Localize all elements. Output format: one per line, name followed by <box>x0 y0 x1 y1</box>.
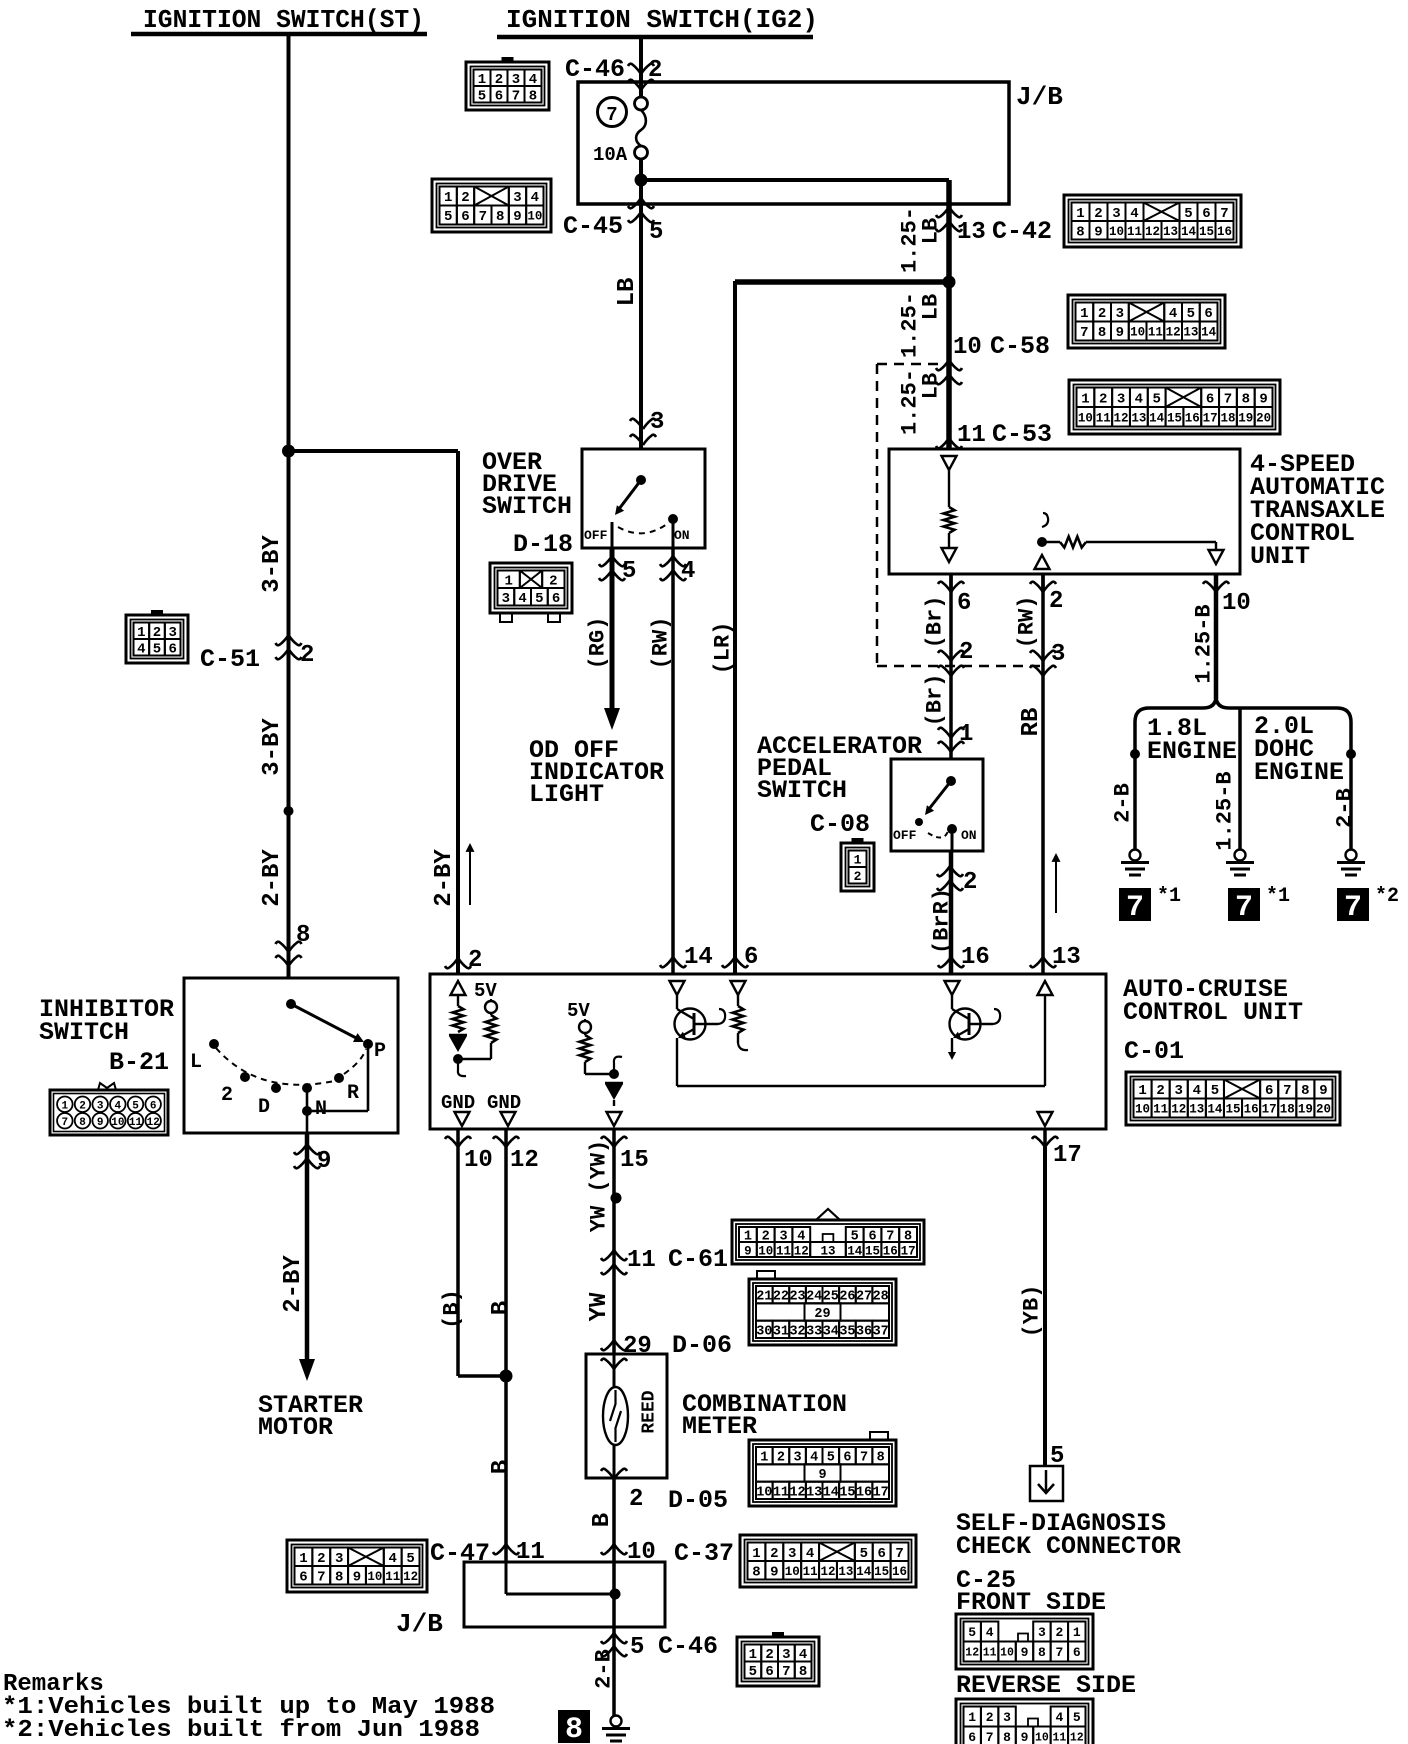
svg-text:ON: ON <box>674 528 690 543</box>
svg-text:10: 10 <box>953 334 982 361</box>
svg-text:3: 3 <box>1112 206 1120 222</box>
svg-text:8: 8 <box>752 1564 760 1580</box>
svg-text:2: 2 <box>963 869 977 896</box>
svg-text:LB: LB <box>614 278 641 307</box>
svg-text:10: 10 <box>1109 225 1124 239</box>
svg-text:20: 20 <box>1256 411 1271 425</box>
svg-text:12: 12 <box>1145 225 1160 239</box>
svg-text:12: 12 <box>1171 1103 1186 1117</box>
svg-text:YW: YW <box>586 1292 613 1321</box>
svg-text:8: 8 <box>565 1713 583 1744</box>
svg-text:11: 11 <box>627 1247 656 1274</box>
svg-text:REVERSE SIDE: REVERSE SIDE <box>956 1671 1136 1700</box>
svg-text:(Br): (Br) <box>923 674 948 727</box>
svg-text:3: 3 <box>1117 391 1125 407</box>
svg-text:10: 10 <box>1035 1732 1049 1744</box>
svg-text:7: 7 <box>1344 891 1362 925</box>
svg-text:10: 10 <box>367 1570 382 1584</box>
svg-text:10: 10 <box>111 1117 124 1129</box>
svg-text:17: 17 <box>1053 1142 1082 1169</box>
svg-text:14: 14 <box>1181 225 1197 239</box>
svg-text:15: 15 <box>874 1565 889 1579</box>
svg-text:18: 18 <box>1220 411 1235 425</box>
svg-text:7: 7 <box>1080 325 1088 341</box>
svg-text:5: 5 <box>749 1664 757 1680</box>
svg-text:10: 10 <box>1222 590 1251 617</box>
svg-text:14: 14 <box>856 1565 872 1579</box>
svg-text:15: 15 <box>1225 1103 1240 1117</box>
svg-text:2-B: 2-B <box>592 1649 617 1689</box>
svg-text:2: 2 <box>1049 588 1063 615</box>
svg-text:8: 8 <box>1301 1083 1309 1099</box>
svg-text:6: 6 <box>765 1664 773 1680</box>
svg-text:B: B <box>589 1513 616 1527</box>
svg-text:CHECK CONNECTOR: CHECK CONNECTOR <box>956 1532 1181 1561</box>
svg-text:17: 17 <box>901 1245 916 1259</box>
svg-text:2: 2 <box>549 573 557 589</box>
svg-text:11: 11 <box>1148 326 1163 340</box>
svg-text:5: 5 <box>535 591 543 607</box>
svg-text:J/B: J/B <box>1016 82 1063 112</box>
svg-text:D-18: D-18 <box>513 530 573 559</box>
svg-text:8: 8 <box>1038 1645 1046 1660</box>
svg-text:LIGHT: LIGHT <box>529 780 604 809</box>
svg-text:P: P <box>374 1040 386 1063</box>
svg-text:1: 1 <box>752 1546 760 1562</box>
svg-text:2: 2 <box>300 642 314 669</box>
svg-text:11: 11 <box>129 1117 143 1129</box>
svg-text:2-BY: 2-BY <box>259 849 286 907</box>
svg-text:10: 10 <box>785 1565 800 1579</box>
svg-text:C-01: C-01 <box>1124 1037 1184 1066</box>
svg-text:LB: LB <box>919 218 944 244</box>
svg-text:7: 7 <box>512 88 520 104</box>
svg-text:13: 13 <box>1183 326 1198 340</box>
svg-text:12: 12 <box>965 1647 979 1660</box>
svg-text:*1: *1 <box>1157 885 1181 908</box>
svg-text:13: 13 <box>1189 1103 1204 1117</box>
svg-text:5: 5 <box>860 1546 868 1562</box>
svg-text:13: 13 <box>838 1565 853 1579</box>
svg-text:6: 6 <box>299 1569 307 1585</box>
svg-text:11: 11 <box>983 1647 997 1660</box>
svg-text:UNIT: UNIT <box>1250 542 1310 571</box>
svg-text:5: 5 <box>132 1100 139 1112</box>
svg-text:3: 3 <box>513 190 521 206</box>
svg-text:29: 29 <box>623 1333 652 1360</box>
svg-text:11: 11 <box>385 1570 400 1584</box>
svg-text:9: 9 <box>1259 391 1267 407</box>
svg-text:15: 15 <box>1199 225 1214 239</box>
svg-text:16: 16 <box>961 944 990 971</box>
svg-text:3-BY: 3-BY <box>259 535 286 593</box>
svg-text:4: 4 <box>1130 206 1138 222</box>
svg-text:2-BY: 2-BY <box>431 849 458 907</box>
svg-text:9: 9 <box>744 1245 752 1259</box>
svg-text:9: 9 <box>770 1564 778 1580</box>
svg-text:C-47: C-47 <box>430 1539 490 1568</box>
svg-text:9: 9 <box>97 1117 104 1129</box>
svg-text:*2: *2 <box>1375 885 1399 908</box>
svg-text:C-42: C-42 <box>992 217 1052 246</box>
svg-text:8: 8 <box>496 209 504 225</box>
svg-text:20: 20 <box>1316 1103 1331 1117</box>
svg-text:5: 5 <box>630 1634 644 1661</box>
svg-text:8: 8 <box>1242 391 1250 407</box>
svg-text:10: 10 <box>1135 1103 1150 1117</box>
svg-text:C-46: C-46 <box>658 1632 718 1661</box>
svg-text:12: 12 <box>1070 1732 1084 1744</box>
svg-text:5: 5 <box>649 219 663 246</box>
svg-text:6: 6 <box>495 88 503 104</box>
svg-text:R: R <box>347 1082 359 1105</box>
svg-text:C-46: C-46 <box>565 55 625 84</box>
svg-text:5: 5 <box>478 88 486 104</box>
svg-text:(RW): (RW) <box>649 617 674 670</box>
svg-text:15: 15 <box>1167 411 1182 425</box>
svg-text:31: 31 <box>773 1324 789 1339</box>
svg-text:2: 2 <box>461 190 469 206</box>
svg-text:19: 19 <box>1238 411 1253 425</box>
svg-text:2: 2 <box>986 1710 994 1725</box>
svg-text:SWITCH: SWITCH <box>482 492 572 521</box>
svg-text:ON: ON <box>961 828 977 843</box>
svg-text:4: 4 <box>389 1551 397 1567</box>
svg-text:7: 7 <box>62 1117 69 1129</box>
svg-text:11: 11 <box>1153 1103 1168 1117</box>
svg-text:1: 1 <box>854 852 862 867</box>
svg-text:C-53: C-53 <box>992 420 1052 449</box>
svg-text:1: 1 <box>959 721 973 748</box>
svg-text:6: 6 <box>1204 306 1212 322</box>
svg-text:9: 9 <box>1319 1083 1327 1099</box>
svg-text:5: 5 <box>1187 306 1195 322</box>
svg-text:3: 3 <box>788 1546 796 1562</box>
svg-text:2: 2 <box>648 57 662 84</box>
svg-text:6: 6 <box>968 1730 976 1744</box>
svg-text:8: 8 <box>1076 224 1084 240</box>
svg-text:7: 7 <box>317 1569 325 1585</box>
svg-text:6: 6 <box>461 209 469 225</box>
svg-text:5: 5 <box>1073 1710 1081 1725</box>
svg-text:6: 6 <box>1265 1083 1273 1099</box>
svg-text:14: 14 <box>823 1485 839 1500</box>
svg-text:9: 9 <box>1116 325 1124 341</box>
svg-text:1: 1 <box>968 1710 976 1725</box>
svg-text:6: 6 <box>1206 391 1214 407</box>
svg-text:14: 14 <box>847 1245 863 1259</box>
svg-text:10: 10 <box>527 210 542 224</box>
svg-text:2: 2 <box>770 1546 778 1562</box>
svg-text:14: 14 <box>1201 326 1217 340</box>
svg-text:12: 12 <box>147 1117 160 1129</box>
svg-text:8: 8 <box>529 88 537 104</box>
svg-text:4: 4 <box>531 190 539 206</box>
svg-text:LB: LB <box>919 294 944 320</box>
svg-text:15: 15 <box>839 1485 855 1500</box>
svg-text:MOTOR: MOTOR <box>258 1413 333 1442</box>
svg-text:16: 16 <box>892 1565 907 1579</box>
svg-text:5: 5 <box>1152 391 1160 407</box>
svg-text:1: 1 <box>1073 1625 1081 1640</box>
svg-text:(Br): (Br) <box>923 596 948 649</box>
svg-text:2-BY: 2-BY <box>280 1255 307 1313</box>
svg-text:16: 16 <box>1244 1103 1259 1117</box>
svg-text:GND: GND <box>487 1092 521 1114</box>
svg-text:10: 10 <box>464 1147 493 1174</box>
svg-text:3: 3 <box>335 1551 343 1567</box>
svg-text:10: 10 <box>1130 326 1145 340</box>
svg-text:36: 36 <box>856 1324 872 1339</box>
svg-text:7: 7 <box>1224 391 1232 407</box>
svg-text:LB: LB <box>919 373 944 399</box>
svg-text:GND: GND <box>441 1092 475 1114</box>
svg-text:RB: RB <box>1018 708 1045 737</box>
svg-text:9: 9 <box>1021 1645 1029 1660</box>
svg-text:35: 35 <box>839 1324 855 1339</box>
svg-text:16: 16 <box>1185 411 1200 425</box>
svg-text:11: 11 <box>1096 411 1111 425</box>
svg-text:11: 11 <box>773 1485 789 1500</box>
svg-text:12: 12 <box>1166 326 1181 340</box>
svg-text:8: 8 <box>1003 1730 1011 1744</box>
svg-text:8: 8 <box>1098 325 1106 341</box>
svg-text:10: 10 <box>758 1245 773 1259</box>
svg-text:5: 5 <box>153 641 161 657</box>
svg-text:2: 2 <box>221 1084 233 1107</box>
svg-text:9: 9 <box>1094 224 1102 240</box>
svg-text:2: 2 <box>468 947 482 974</box>
svg-text:5: 5 <box>1211 1083 1219 1099</box>
svg-text:2: 2 <box>79 1100 86 1112</box>
svg-text:6: 6 <box>957 590 971 617</box>
svg-text:11: 11 <box>1052 1732 1066 1744</box>
svg-text:L: L <box>190 1051 202 1074</box>
svg-text:(YB): (YB) <box>1020 1285 1045 1338</box>
svg-text:13: 13 <box>1052 944 1081 971</box>
svg-text:11: 11 <box>803 1565 818 1579</box>
svg-text:9: 9 <box>353 1569 361 1585</box>
svg-text:8: 8 <box>335 1569 343 1585</box>
svg-text:1: 1 <box>1080 306 1088 322</box>
svg-text:6: 6 <box>877 1546 885 1562</box>
svg-text:D: D <box>258 1096 270 1119</box>
svg-text:9: 9 <box>1021 1730 1029 1744</box>
svg-text:3: 3 <box>502 591 510 607</box>
svg-text:B-21: B-21 <box>109 1048 169 1077</box>
svg-text:1: 1 <box>504 573 512 589</box>
svg-text:3: 3 <box>97 1100 104 1112</box>
svg-text:1: 1 <box>1081 391 1089 407</box>
svg-text:16: 16 <box>856 1485 872 1500</box>
svg-text:IGNITION SWITCH(ST): IGNITION SWITCH(ST) <box>143 5 424 35</box>
svg-text:10: 10 <box>1000 1647 1014 1660</box>
svg-text:B: B <box>488 1301 515 1315</box>
svg-text:13: 13 <box>806 1485 822 1500</box>
svg-text:12: 12 <box>510 1147 539 1174</box>
svg-text:17: 17 <box>873 1485 889 1500</box>
svg-text:IGNITION SWITCH(IG2): IGNITION SWITCH(IG2) <box>506 5 818 35</box>
svg-text:2-B: 2-B <box>1333 788 1358 828</box>
svg-text:5: 5 <box>968 1625 976 1640</box>
svg-text:4: 4 <box>681 558 695 585</box>
svg-text:9: 9 <box>513 209 521 225</box>
svg-text:(B): (B) <box>440 1289 465 1329</box>
svg-text:5: 5 <box>622 558 636 585</box>
svg-text:3: 3 <box>1175 1083 1183 1099</box>
svg-text:4: 4 <box>1135 391 1143 407</box>
svg-text:11: 11 <box>776 1245 791 1259</box>
svg-text:REED: REED <box>639 1390 659 1433</box>
svg-text:3: 3 <box>1038 1625 1046 1640</box>
svg-text:2: 2 <box>317 1551 325 1567</box>
svg-text:*2:Vehicles built from Jun 198: *2:Vehicles built from Jun 1988 <box>2 1717 480 1744</box>
svg-text:C-58: C-58 <box>990 332 1050 361</box>
svg-text:1: 1 <box>1138 1083 1146 1099</box>
svg-text:C-45: C-45 <box>563 212 623 241</box>
svg-text:1.25-B: 1.25-B <box>1192 604 1217 683</box>
svg-text:18: 18 <box>1280 1103 1295 1117</box>
svg-text:8: 8 <box>79 1117 86 1129</box>
svg-text:13: 13 <box>820 1245 835 1259</box>
svg-text:16: 16 <box>1217 225 1232 239</box>
svg-text:3: 3 <box>650 409 664 436</box>
svg-text:4: 4 <box>806 1546 814 1562</box>
svg-text:3: 3 <box>1051 641 1065 668</box>
svg-text:2: 2 <box>1055 1625 1063 1640</box>
svg-text:17: 17 <box>1203 411 1218 425</box>
svg-text:4: 4 <box>137 641 145 657</box>
svg-text:2: 2 <box>854 869 862 884</box>
svg-text:1: 1 <box>1076 206 1084 222</box>
svg-text:OFF: OFF <box>584 528 608 543</box>
svg-text:4: 4 <box>1193 1083 1201 1099</box>
svg-text:15: 15 <box>865 1245 880 1259</box>
svg-text:5V: 5V <box>474 980 497 1002</box>
svg-text:37: 37 <box>873 1324 889 1339</box>
svg-text:7: 7 <box>1283 1083 1291 1099</box>
svg-text:4: 4 <box>986 1625 994 1640</box>
svg-text:1: 1 <box>444 190 452 206</box>
svg-text:12: 12 <box>1114 411 1129 425</box>
svg-text:12: 12 <box>403 1570 418 1584</box>
svg-text:10: 10 <box>756 1485 772 1500</box>
svg-text:1.25-B: 1.25-B <box>1213 771 1238 850</box>
svg-text:11: 11 <box>1127 225 1142 239</box>
svg-text:2: 2 <box>629 1486 643 1513</box>
svg-text:17: 17 <box>1262 1103 1277 1117</box>
svg-text:7: 7 <box>1220 206 1228 222</box>
svg-text:ENGINE: ENGINE <box>1147 737 1237 766</box>
svg-text:J/B: J/B <box>396 1609 443 1639</box>
svg-text:N: N <box>315 1098 327 1121</box>
svg-text:12: 12 <box>789 1485 805 1500</box>
svg-text:7: 7 <box>1235 891 1253 925</box>
svg-text:5V: 5V <box>567 1000 590 1022</box>
svg-text:7: 7 <box>895 1546 903 1562</box>
svg-text:5: 5 <box>406 1551 414 1567</box>
svg-text:14: 14 <box>684 944 713 971</box>
svg-text:7: 7 <box>986 1730 994 1744</box>
svg-text:14: 14 <box>1207 1103 1223 1117</box>
svg-text:METER: METER <box>682 1412 757 1441</box>
svg-text:2: 2 <box>1094 206 1102 222</box>
svg-text:8: 8 <box>296 922 310 949</box>
svg-text:8: 8 <box>799 1664 807 1680</box>
svg-text:9: 9 <box>317 1148 331 1175</box>
svg-text:7: 7 <box>606 104 617 126</box>
svg-text:C-61: C-61 <box>668 1245 728 1274</box>
svg-text:7: 7 <box>1055 1645 1063 1660</box>
svg-text:6: 6 <box>168 641 176 657</box>
svg-text:34: 34 <box>823 1324 839 1339</box>
svg-text:7: 7 <box>782 1664 790 1680</box>
svg-text:OFF: OFF <box>893 828 917 843</box>
svg-text:D-06: D-06 <box>672 1331 732 1360</box>
svg-text:5: 5 <box>1184 206 1192 222</box>
svg-text:(RW): (RW) <box>1015 596 1040 649</box>
svg-text:13: 13 <box>1131 411 1146 425</box>
svg-text:4: 4 <box>518 591 526 607</box>
svg-text:(BrR): (BrR) <box>930 888 955 954</box>
svg-text:11: 11 <box>957 422 986 449</box>
svg-text:1: 1 <box>62 1100 69 1112</box>
svg-text:ENGINE: ENGINE <box>1254 758 1344 787</box>
svg-text:*1: *1 <box>1266 885 1290 908</box>
svg-text:15: 15 <box>620 1147 649 1174</box>
svg-text:13: 13 <box>957 219 986 246</box>
svg-text:30: 30 <box>756 1324 772 1339</box>
svg-text:10A: 10A <box>593 144 628 166</box>
svg-text:3: 3 <box>1003 1710 1011 1725</box>
svg-text:7: 7 <box>1126 891 1144 925</box>
svg-text:5: 5 <box>444 209 452 225</box>
svg-text:32: 32 <box>789 1324 805 1339</box>
svg-text:14: 14 <box>1149 411 1165 425</box>
svg-text:2: 2 <box>959 639 973 666</box>
svg-text:12: 12 <box>794 1245 809 1259</box>
svg-text:B: B <box>488 1460 515 1474</box>
svg-text:2-B: 2-B <box>1111 783 1136 823</box>
svg-text:13: 13 <box>1163 225 1178 239</box>
svg-text:4: 4 <box>1169 306 1177 322</box>
svg-text:6: 6 <box>1073 1645 1081 1660</box>
svg-text:CONTROL UNIT: CONTROL UNIT <box>1123 998 1303 1027</box>
svg-text:2: 2 <box>1099 391 1107 407</box>
svg-text:1: 1 <box>299 1551 307 1567</box>
svg-text:(LR): (LR) <box>711 622 736 675</box>
svg-text:2: 2 <box>1156 1083 1164 1099</box>
svg-text:6: 6 <box>1202 206 1210 222</box>
svg-text:3: 3 <box>1116 306 1124 322</box>
svg-text:4: 4 <box>115 1100 122 1112</box>
svg-text:2: 2 <box>1098 306 1106 322</box>
svg-text:6: 6 <box>552 591 560 607</box>
svg-text:YW (YW): YW (YW) <box>587 1140 612 1232</box>
svg-text:16: 16 <box>883 1245 898 1259</box>
svg-text:C-08: C-08 <box>810 810 870 839</box>
svg-text:7: 7 <box>479 209 487 225</box>
svg-text:33: 33 <box>806 1324 822 1339</box>
svg-text:SWITCH: SWITCH <box>39 1018 129 1047</box>
svg-text:(RG): (RG) <box>586 617 611 670</box>
svg-text:19: 19 <box>1298 1103 1313 1117</box>
svg-text:10: 10 <box>1078 411 1093 425</box>
svg-text:SWITCH: SWITCH <box>757 776 847 805</box>
svg-text:C-51: C-51 <box>200 645 260 674</box>
svg-text:12: 12 <box>820 1565 835 1579</box>
svg-text:4: 4 <box>1055 1710 1063 1725</box>
